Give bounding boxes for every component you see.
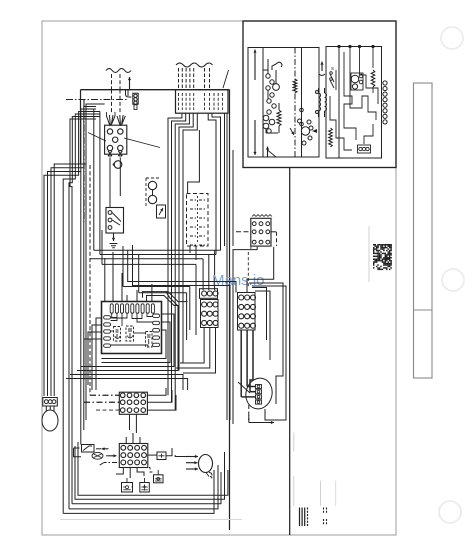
inset top junction dots [338, 45, 340, 47]
left harness nested corners [54, 104, 104, 396]
outer loop wide [80, 164, 82, 440]
ground dash-dot vertical [83, 100, 85, 223]
main right edge second line [232, 150, 234, 246]
lv block bottom wires [116, 468, 123, 475]
fine print column B [323, 508, 325, 515]
plug connector dashed [187, 194, 209, 247]
lv bracket [74, 448, 82, 457]
inset rail contacts [300, 108, 304, 112]
plug bottom stubs [189, 246, 191, 253]
run capacitor circles [148, 181, 156, 189]
wire route E [183, 113, 197, 363]
pcb right pins [153, 314, 160, 317]
compressor terminal X marks [108, 151, 112, 156]
pcb relay K2 dashed [126, 326, 134, 341]
sensor leads top [43, 393, 45, 398]
inset component cluster circles [351, 75, 359, 83]
field wiring squiggle right [176, 63, 213, 67]
binder hole bottom [439, 501, 461, 523]
faint line above QR [368, 226, 370, 282]
inset right circle column [383, 81, 387, 85]
inset coil lower-left [329, 128, 333, 147]
inset pointer arrow [290, 128, 294, 135]
fan motor ground squiggle [206, 473, 212, 479]
dft box [154, 475, 164, 483]
main unit right edge [229, 90, 231, 530]
pcb left wires [96, 318, 102, 390]
main unit left edge upper [80, 90, 82, 164]
fuse holder GR [133, 93, 138, 104]
plug A bottom leads [180, 328, 204, 364]
pressure switch ground [113, 233, 115, 241]
defrost relay right leads [147, 388, 166, 395]
right nested loop tall [249, 283, 283, 404]
pointer line to strip [223, 70, 229, 88]
cap small arrow box [157, 205, 166, 218]
inset motor cluster [301, 127, 309, 135]
inset heater zigzag [277, 110, 281, 126]
dashed supply bundle right [178, 68, 180, 90]
inset legend right box [326, 47, 382, 159]
page sheet border [42, 21, 396, 535]
inset right inner verticals [349, 47, 351, 101]
pcb top feed verticals [104, 258, 106, 302]
pcb top pin row [110, 304, 113, 313]
side tab rectangle [414, 83, 433, 378]
dashed arrow bottom right [248, 405, 250, 421]
defrost relay block [119, 392, 147, 414]
ground hook [126, 90, 132, 97]
pcb relay K3 dashed [146, 332, 153, 348]
dashed supply lines left [111, 74, 113, 90]
QR code block [373, 244, 392, 270]
fan feed verticals [93, 109, 95, 250]
pcb left pins [104, 316, 111, 319]
pcb internal traces [112, 313, 127, 318]
fan motor circle [199, 455, 213, 473]
ambient sensor bulb [42, 410, 58, 431]
quick-connect plug A [200, 289, 218, 299]
bottom harness loops [75, 446, 225, 499]
wire route D [179, 113, 193, 370]
divider line [289, 168, 291, 536]
terminal strip TB1 [176, 90, 229, 114]
pcb incoming top wires [126, 295, 128, 302]
inset L5 contacts [330, 74, 334, 82]
inset nested routing [344, 52, 356, 140]
defrost block to plug B wires [233, 247, 257, 424]
svg-text:S: S [331, 66, 334, 71]
inset wire left vertical [262, 48, 264, 158]
pressure switch box [106, 208, 124, 234]
lv dashdot lead [104, 462, 117, 464]
inset right rail [301, 48, 303, 158]
fan motor lead wires [175, 455, 186, 457]
inset bottom connector [358, 145, 371, 153]
fan motor arrows [186, 456, 198, 458]
contactor coil box [82, 445, 95, 453]
compressor lead chevrons [107, 115, 116, 126]
dashed leads to compressor [111, 90, 113, 115]
fine print column A [299, 508, 301, 527]
hps box [140, 483, 150, 493]
inset box frame [243, 21, 396, 168]
inset legend left box [248, 48, 319, 158]
quick-connect plug B [238, 293, 256, 331]
pcb relay K1 dashed [114, 327, 121, 342]
inset dashdot center line [294, 48, 296, 158]
lv small boxes leads [126, 478, 128, 483]
compressor outlet wires [109, 158, 111, 208]
arrow up near squiggle [129, 77, 131, 89]
binder hole top [441, 27, 463, 49]
binder hole middle [442, 269, 464, 291]
terminal strip inner dashes [178, 93, 180, 110]
control board outline [102, 302, 162, 354]
wire long center [188, 130, 200, 193]
main unit outline top [81, 89, 230, 91]
motor pointer [238, 382, 250, 393]
wire route G [212, 113, 221, 250]
inset resistor on centerline [293, 79, 297, 93]
crankcase heater circle [114, 161, 122, 169]
outdoor fan motor connector [243, 375, 276, 411]
defrost board terminal block [251, 218, 271, 246]
inset dimension arrows [254, 50, 256, 81]
faint scan line bottom [60, 519, 242, 521]
wire route A [168, 113, 182, 395]
faint column lines [293, 433, 295, 452]
inset relay coil right [371, 70, 375, 87]
pcb bottom nested wires [102, 330, 167, 359]
main unit outline top second [81, 85, 183, 87]
inset up arrow [321, 62, 323, 72]
lv oval device [92, 452, 103, 459]
ground dash-dot run [66, 99, 128, 101]
dash leads to defrost block [236, 231, 251, 233]
wire route C [175, 113, 189, 410]
annotation pointer left [88, 133, 106, 142]
plug B leads [246, 330, 248, 387]
inset right vertical rail [338, 47, 340, 159]
defrost relay bottom drops [129, 414, 131, 430]
lv block top leads [125, 437, 127, 444]
pcb feed nested lines [138, 240, 240, 293]
defrost relay dashdot leads [90, 394, 119, 396]
fs box [157, 452, 166, 460]
inset relay contact lower [263, 115, 269, 121]
inset hook wire [276, 62, 282, 67]
inset contact circles chain [266, 74, 270, 78]
compressor terminal box [105, 125, 127, 154]
compressor terminal circles [107, 129, 112, 134]
wire route B [172, 113, 186, 402]
inset transformer [319, 93, 321, 111]
lv terminal block [119, 444, 148, 468]
left mid verticals drop [80, 172, 82, 445]
staircase harness fan [94, 249, 221, 251]
field wiring squiggle left [106, 69, 131, 73]
wire right pair down [224, 113, 226, 246]
wire route F [208, 113, 216, 254]
ambient sensor connector [43, 398, 58, 407]
lps box [122, 483, 133, 493]
annotation pointer right [124, 138, 160, 148]
lv arrows mid [102, 448, 109, 450]
